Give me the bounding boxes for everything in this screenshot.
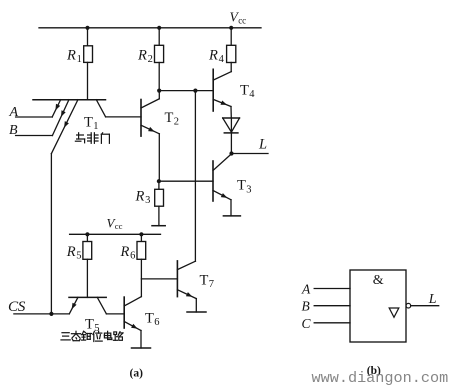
svg-text:T: T xyxy=(145,310,154,326)
annotation tri-state clamp circuit (Chinese) xyxy=(61,331,123,341)
wire Vcc to R6 xyxy=(140,234,142,241)
label & (AND) xyxy=(373,273,384,288)
label B gate xyxy=(302,299,310,314)
svg-text:6: 6 xyxy=(154,317,159,328)
ground T6 xyxy=(132,347,151,349)
svg-text:T: T xyxy=(85,317,94,333)
label T7 xyxy=(200,272,214,290)
svg-text:2: 2 xyxy=(148,54,153,65)
svg-text:5: 5 xyxy=(76,251,81,262)
svg-text:L: L xyxy=(428,292,437,307)
resistor R1 xyxy=(84,46,93,63)
wire T4 emitter to diode xyxy=(230,107,232,119)
svg-text:3: 3 xyxy=(246,184,251,195)
svg-text:www.diangon.com: www.diangon.com xyxy=(312,369,449,387)
label B xyxy=(9,123,18,138)
svg-text:T: T xyxy=(84,114,93,130)
wire to R3 xyxy=(158,181,160,189)
transistor T1 base bar xyxy=(33,99,106,101)
svg-text:4: 4 xyxy=(249,89,255,100)
transistor T3 base bar xyxy=(212,161,214,201)
annotation NAND gate (Chinese) xyxy=(75,133,109,144)
label R6 xyxy=(120,244,136,262)
wire R3 to ground xyxy=(158,206,160,226)
transistor T3 emitter xyxy=(213,191,231,200)
label R5 xyxy=(66,244,82,262)
transistor T7 collector xyxy=(177,261,195,269)
svg-text:R: R xyxy=(66,47,76,63)
svg-text:T: T xyxy=(237,178,246,194)
wire Vcc to R4 xyxy=(230,28,232,46)
transistor T1 emitter 2 xyxy=(52,100,69,136)
svg-text:2: 2 xyxy=(174,116,179,127)
wire R6 node to T7 base xyxy=(141,278,177,280)
gate symbol box xyxy=(350,270,406,342)
input CS wire xyxy=(14,313,69,315)
input A wire xyxy=(16,116,53,118)
wire output L xyxy=(232,153,269,155)
wire through diode xyxy=(230,118,232,133)
transistor T6 emitter xyxy=(124,322,141,331)
label R3 xyxy=(135,189,151,207)
label A gate xyxy=(301,281,311,296)
svg-text:A: A xyxy=(9,105,19,120)
svg-text:A: A xyxy=(301,281,311,296)
gate output wire xyxy=(411,305,439,307)
diode D anode xyxy=(223,117,240,119)
wire T6 emitter to ground xyxy=(140,331,142,349)
wire Vcc to R2 xyxy=(158,28,160,46)
label Vcc top xyxy=(230,10,247,26)
label R1 xyxy=(66,47,82,65)
inversion bubble xyxy=(406,303,411,308)
resistor R3 xyxy=(155,189,164,206)
label T6 xyxy=(145,310,159,328)
input B wire xyxy=(16,135,53,137)
wire Vcc to R1 xyxy=(87,28,89,46)
label T2 xyxy=(165,110,179,128)
junction node T7-T4 xyxy=(193,89,197,93)
wire R5 to T5 base xyxy=(86,259,88,297)
wire R2 to node K xyxy=(158,63,160,91)
svg-text:&: & xyxy=(373,273,384,288)
label C gate xyxy=(302,316,312,331)
junction node rail-R6 xyxy=(139,232,143,236)
transistor T1 collector xyxy=(96,100,105,117)
wire node K to T4 base xyxy=(159,90,213,92)
diode D cathode xyxy=(224,132,238,134)
svg-text:T: T xyxy=(200,272,209,288)
ground R3 xyxy=(152,225,165,227)
label (b) xyxy=(367,365,381,377)
ground T3 xyxy=(223,215,240,217)
label T1 xyxy=(84,114,98,132)
wire T1 collector to T2 base xyxy=(106,116,141,118)
transistor T2 emitter xyxy=(141,125,159,134)
node L junction dot xyxy=(229,151,233,155)
svg-text:1: 1 xyxy=(77,54,82,65)
label CS xyxy=(8,298,26,315)
label L gate xyxy=(428,292,437,307)
transistor T6 base bar xyxy=(123,297,125,328)
resistor R6 xyxy=(137,242,146,260)
wire T5 collector to T6 base xyxy=(106,313,124,315)
wire Vcc to R5 xyxy=(86,234,88,241)
transistor T4 base bar xyxy=(212,69,214,111)
label A xyxy=(9,105,19,120)
label T4 xyxy=(240,82,255,100)
label T3 xyxy=(237,178,251,196)
label Vcc bottom xyxy=(107,215,123,231)
junction node rail-R4 xyxy=(229,26,233,30)
transistor T2 base bar xyxy=(140,100,142,137)
transistor T4 collector xyxy=(213,72,231,81)
svg-text:B: B xyxy=(302,299,310,314)
gate input C wire xyxy=(314,322,350,324)
junction node CS-T1e3 xyxy=(49,312,53,316)
resistor R4 xyxy=(227,45,236,62)
watermark www.diangon.com xyxy=(312,369,449,387)
svg-text:L: L xyxy=(258,136,267,152)
wire diode to node L xyxy=(230,133,232,154)
svg-text:T: T xyxy=(240,82,249,98)
tri-state triangle symbol xyxy=(389,308,399,317)
svg-text:6: 6 xyxy=(130,251,135,262)
wire T1 emitter3 to CS node xyxy=(50,154,52,314)
transistor T1 emitter 1 xyxy=(52,100,60,117)
gate input B wire xyxy=(314,305,350,307)
wire T7 emitter to ground xyxy=(195,299,197,312)
resistor R2 xyxy=(155,45,164,62)
gate input A wire xyxy=(314,288,350,290)
transistor T5 base bar xyxy=(69,296,106,298)
svg-text:3: 3 xyxy=(145,195,150,206)
transistor T7 emitter xyxy=(177,290,196,299)
ground T7 xyxy=(187,311,206,313)
label T5 xyxy=(85,317,99,335)
transistor T5 collector xyxy=(97,297,106,314)
label R4 xyxy=(208,47,225,65)
junction node rail-R5 xyxy=(85,232,89,236)
transistor T5 emitter xyxy=(69,297,78,314)
svg-text:R: R xyxy=(66,244,76,260)
power rail Vcc bottom xyxy=(70,233,161,235)
svg-text:1: 1 xyxy=(93,121,98,132)
svg-text:C: C xyxy=(302,316,312,331)
svg-text:R: R xyxy=(137,47,147,63)
svg-text:4: 4 xyxy=(219,54,225,65)
transistor T6 collector xyxy=(124,297,141,306)
transistor T7 base bar xyxy=(176,261,178,297)
svg-text:R: R xyxy=(208,47,218,63)
wire node to T3 base xyxy=(159,180,213,182)
power rail Vcc top xyxy=(39,27,261,29)
label R2 xyxy=(137,47,153,65)
transistor T2 collector xyxy=(141,91,159,108)
junction node T2e-R3 xyxy=(157,179,161,183)
transistor T1 emitter 3 (enable) xyxy=(51,100,78,154)
svg-text:CS: CS xyxy=(8,298,26,315)
svg-text:T: T xyxy=(165,110,174,126)
diode D body xyxy=(223,118,240,132)
wire R4 to T4 collector xyxy=(230,63,232,72)
resistor R5 xyxy=(83,242,92,260)
svg-text:(a): (a) xyxy=(130,368,144,380)
svg-text:cc: cc xyxy=(238,15,246,25)
junction node rail-R1 xyxy=(85,26,89,30)
svg-text:R: R xyxy=(120,244,130,260)
svg-text:cc: cc xyxy=(115,221,123,231)
transistor T3 collector xyxy=(213,154,232,171)
label (a) xyxy=(130,368,144,380)
junction node rail-R2 xyxy=(157,26,161,30)
svg-text:7: 7 xyxy=(209,279,214,290)
svg-text:R: R xyxy=(135,189,145,205)
wire T7 collector to T4 base xyxy=(194,91,196,262)
transistor T4 emitter xyxy=(213,99,231,106)
node K junction dot xyxy=(157,89,161,93)
label L output xyxy=(258,136,267,152)
svg-text:B: B xyxy=(9,123,18,138)
wire T2 emitter to R3 xyxy=(158,134,160,181)
wire T3 emitter to ground xyxy=(230,200,232,216)
wire R6 down xyxy=(140,259,142,296)
wire R1 to T1 base xyxy=(87,62,89,99)
